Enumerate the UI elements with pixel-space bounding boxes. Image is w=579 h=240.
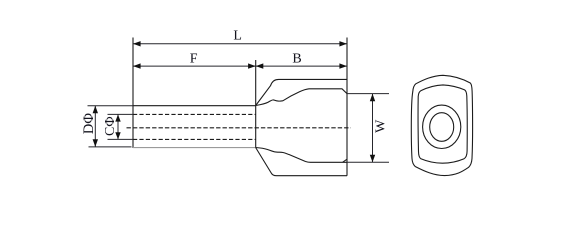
svg-text:CΦ: CΦ bbox=[103, 116, 118, 136]
wire: left extension line x=133 (tube left edge + extension up to L dim) bbox=[132, 38, 134, 148]
svg-text:B: B bbox=[292, 52, 301, 67]
dimension C bottom extension bbox=[108, 138, 134, 140]
arrowhead L left bbox=[133, 41, 141, 46]
wire: tube bottom edge (gray) bbox=[133, 147, 256, 149]
wire: tube top edge bbox=[133, 105, 256, 107]
arrowhead L right bbox=[339, 41, 347, 46]
dimension C arrow line bbox=[117, 114, 119, 139]
dimension C top extension bbox=[108, 113, 134, 115]
arrowhead C top bbox=[115, 114, 120, 121]
arrowhead D top bbox=[93, 106, 98, 114]
wire: right extension line x=347 (collar right edge + extension up to L dim) bbox=[346, 38, 348, 176]
arrowhead F right bbox=[248, 63, 256, 68]
end view outer circle bbox=[423, 105, 461, 148]
svg-text:L: L bbox=[233, 28, 242, 43]
dimension B line bbox=[256, 65, 347, 67]
wire: center axis dashed line bbox=[127, 127, 351, 129]
wire: funnel outer top profile bbox=[256, 79, 347, 105]
arrowhead C bottom bbox=[115, 132, 120, 139]
svg-text:F: F bbox=[190, 52, 198, 67]
end view inner circle bbox=[430, 113, 454, 142]
end view inner outline bbox=[418, 85, 467, 163]
wire: tube end vertical line x=256 (extension down from F/B dim through tube) bbox=[255, 60, 257, 148]
dimension D top extension bbox=[88, 105, 134, 107]
arrowhead D bottom bbox=[93, 139, 98, 147]
dimension L line bbox=[133, 43, 347, 45]
dimension W top extension bbox=[347, 93, 389, 95]
end view outer outline bbox=[411, 75, 472, 175]
dimension F line bbox=[133, 65, 256, 67]
dimension D arrow line bbox=[94, 106, 96, 147]
dimension W bottom extension bbox=[347, 161, 389, 163]
wire: bore bottom dashed line bbox=[133, 138, 256, 140]
arrowhead W bottom bbox=[370, 155, 375, 163]
arrowhead B right bbox=[339, 63, 347, 68]
dimension W arrow line bbox=[372, 94, 374, 163]
wire: collar bottom-right chamfer detail bbox=[343, 159, 347, 162]
svg-text:DΦ: DΦ bbox=[81, 113, 97, 134]
arrowhead F left bbox=[133, 63, 141, 68]
wire: funnel outer bottom profile bbox=[256, 148, 347, 176]
svg-text:W: W bbox=[374, 119, 389, 133]
wire: funnel inner bottom profile (crimp detail) bbox=[256, 148, 347, 163]
arrowhead W top bbox=[370, 94, 375, 102]
arrowhead B left bbox=[256, 63, 264, 68]
wire: bore top dashed line bbox=[133, 113, 256, 115]
wire: funnel inner top profile (crimp detail) bbox=[256, 89, 347, 106]
dimension D bottom extension bbox=[89, 146, 132, 148]
